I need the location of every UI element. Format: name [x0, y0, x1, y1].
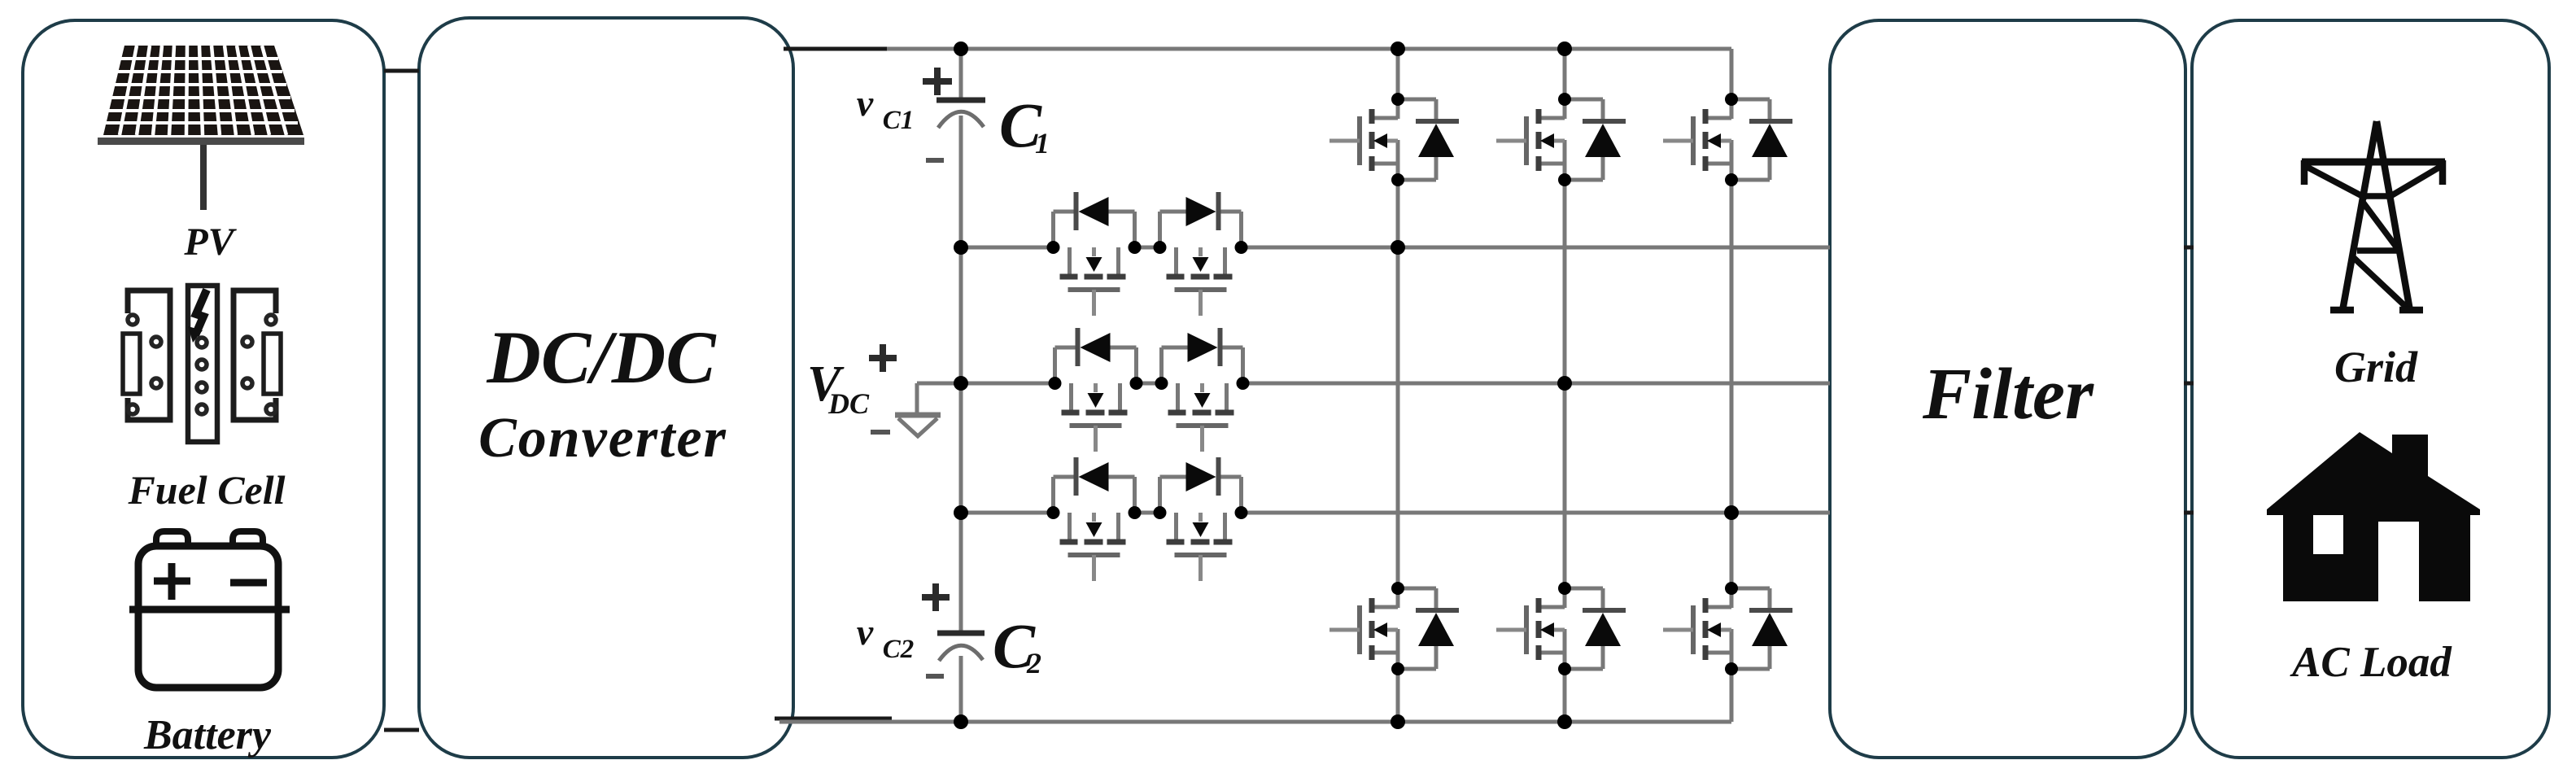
grid tower icon — [2302, 121, 2445, 311]
svg-text:2: 2 — [1026, 647, 1041, 679]
capacitor C2 — [937, 633, 985, 661]
mosfet S3a bidirectional row3 left — [1047, 457, 1142, 581]
label C1 — [999, 90, 1050, 160]
junction: midpoint row2 — [954, 376, 968, 391]
junction: leg A bottom rail — [1391, 714, 1405, 729]
wire: midpoint rail row1 — [961, 246, 1830, 250]
minus sign of C2 — [926, 674, 944, 679]
junction: leg B bottom rail — [1557, 714, 1572, 729]
wire: negative DC rail dark segment — [775, 717, 892, 721]
junction: leg A top rail — [1391, 42, 1405, 56]
mosfet S1b bidirectional row1 right — [1154, 192, 1248, 316]
svg-text:Fuel Cell: Fuel Cell — [127, 467, 285, 513]
junction: midpoint row1 — [954, 240, 968, 255]
fuel cell icon — [123, 286, 281, 442]
mosfet S2a bidirectional row2 left — [1049, 328, 1143, 452]
wire: midpoint rail row3 — [961, 511, 1830, 515]
wire: positive DC rail — [887, 47, 1731, 51]
junction: midpoint row3 — [954, 505, 968, 520]
battery icon — [129, 531, 290, 688]
mosfet Q3 top of leg B — [1496, 93, 1626, 186]
wire: negative DC rail — [779, 720, 1731, 724]
svg-text:Filter: Filter — [1922, 354, 2094, 435]
wire: phase leg C vertical — [1730, 49, 1734, 722]
wire: phase leg B vertical — [1563, 49, 1567, 722]
label vC1 — [857, 82, 914, 135]
block box: Grid / AC load — [2192, 20, 2549, 758]
wire: sources to DC/DC bottom — [384, 728, 419, 732]
AC load house icon — [2267, 432, 2480, 601]
mosfet S2b bidirectional row2 right — [1155, 328, 1250, 452]
mosfet S3b bidirectional row3 right — [1154, 457, 1248, 581]
block box: Filter — [1830, 20, 2185, 758]
mosfet Q6 bottom of leg C — [1663, 582, 1792, 675]
label C2 — [993, 610, 1041, 681]
wire: filter to grid phase A — [2184, 246, 2194, 250]
svg-text:PV: PV — [183, 221, 237, 264]
block box: DC/DC converter — [419, 18, 793, 758]
wire: DC-link vertical lower — [959, 656, 963, 722]
svg-text:1: 1 — [1035, 127, 1050, 159]
mosfet Q4 bottom of leg B — [1496, 582, 1626, 675]
label vC2 — [857, 611, 914, 664]
wire: midpoint rail row2 — [961, 382, 1830, 386]
PV solar panel icon — [98, 46, 304, 210]
svg-text:C1: C1 — [883, 106, 915, 135]
label VDC — [807, 356, 870, 420]
mosfet Q2 bottom of leg A — [1329, 582, 1459, 675]
svg-text:C2: C2 — [883, 635, 915, 664]
ground — [895, 383, 961, 436]
junction: DC-link node bottom — [954, 714, 968, 729]
svg-text:Grid: Grid — [2334, 343, 2418, 391]
wire: filter to grid phase C — [2184, 511, 2194, 515]
mosfet Q5 top of leg C — [1663, 93, 1792, 186]
wire: DC-link vertical upper — [959, 49, 963, 100]
svg-text:v: v — [857, 82, 874, 124]
plus sign of C1 — [923, 68, 952, 95]
mosfet Q1 top of leg A — [1329, 93, 1459, 186]
svg-text:DC: DC — [827, 387, 870, 420]
junction: phase C output node — [1724, 505, 1739, 520]
plus sign of VDC — [869, 344, 897, 372]
svg-text:Converter: Converter — [478, 407, 727, 470]
junction: phase A output node — [1391, 240, 1405, 255]
svg-text:Battery: Battery — [143, 712, 272, 758]
mosfet S1a bidirectional row1 left — [1047, 192, 1142, 316]
junction: leg B top rail — [1557, 42, 1572, 56]
wire: sources to DC/DC top — [384, 69, 419, 73]
block box: energy sources — [23, 20, 384, 758]
minus sign of VDC — [871, 430, 890, 435]
junction: DC-link node top — [954, 42, 968, 56]
capacitor C1 — [937, 100, 985, 128]
svg-text:DC/DC: DC/DC — [486, 316, 717, 399]
junction: phase B output node — [1557, 376, 1572, 391]
svg-text:AC Load: AC Load — [2290, 639, 2452, 686]
wire: positive DC rail dark segment — [784, 47, 887, 51]
wire: DC-link vertical middle — [959, 116, 963, 633]
wire: phase leg A vertical — [1396, 49, 1400, 722]
minus sign of C1 — [926, 158, 944, 163]
svg-text:v: v — [857, 611, 874, 653]
wire: filter to grid phase B — [2184, 382, 2194, 386]
plus sign of C2 — [922, 583, 950, 611]
